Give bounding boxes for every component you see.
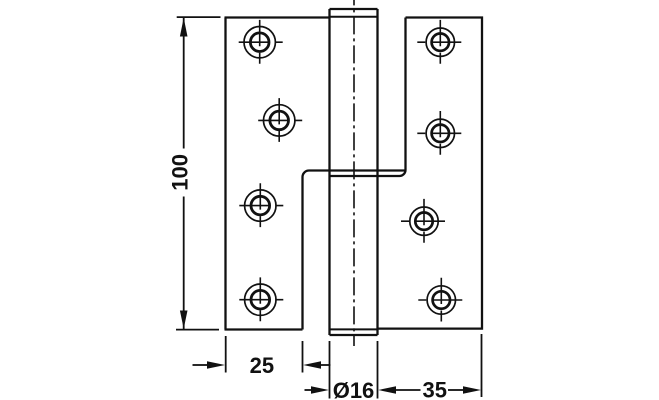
svg-text:35: 35 [423,378,447,400]
screw hole R4 [418,278,462,322]
dimension 35: right segment [448,389,464,391]
screw hole R3 [401,199,445,243]
dimension 25: right extension line [302,341,304,373]
dimension 35: shared left arrowhead at barrel edge [378,386,396,394]
dimension 100: bottom extension line [176,329,219,331]
dimension 100: bottom arrowhead [180,311,188,329]
svg-text:25: 25 [250,353,274,378]
screw hole R1 [417,20,461,64]
dimension 35: right arrowhead [463,386,481,394]
dimension diameter 16: left arrow tail [305,389,313,391]
left leaf outline [225,18,406,330]
barrel top cap line [330,16,378,18]
screw hole R2 [417,111,461,155]
screw hole L1 [239,20,283,64]
dimension 100: dimension line upper part [183,18,185,149]
dimension diameter 16: left arrowhead [311,386,329,394]
dimension 100: top extension line [177,16,221,18]
dimension 25: left extension line [225,336,227,373]
dimension diameter 16: left extension line [329,341,331,399]
centerline of hinge pin [353,0,355,346]
dimension 35: left arrow tail [395,389,421,391]
dimension 100: top arrowhead [180,18,188,37]
dimension 25: right arrowhead [303,361,321,369]
svg-text:Ø16: Ø16 [333,378,375,400]
screw hole L3 [239,183,283,227]
barrel bottom cap line [330,328,378,330]
dimension diameter 16: right extension line [377,341,379,399]
dimension 25: left arrow tail [193,364,209,366]
screw hole L4 [239,277,283,321]
dimension 25: left arrowhead [207,361,225,369]
right leaf outline [330,18,483,329]
dimension 35: right extension line [481,334,483,397]
dimension 25: right arrow tail [320,364,331,366]
svg-text:100: 100 [167,154,192,191]
screw hole L2 [258,98,302,142]
dimension 100: dimension line lower part [183,197,185,330]
hinge barrel [330,9,378,335]
